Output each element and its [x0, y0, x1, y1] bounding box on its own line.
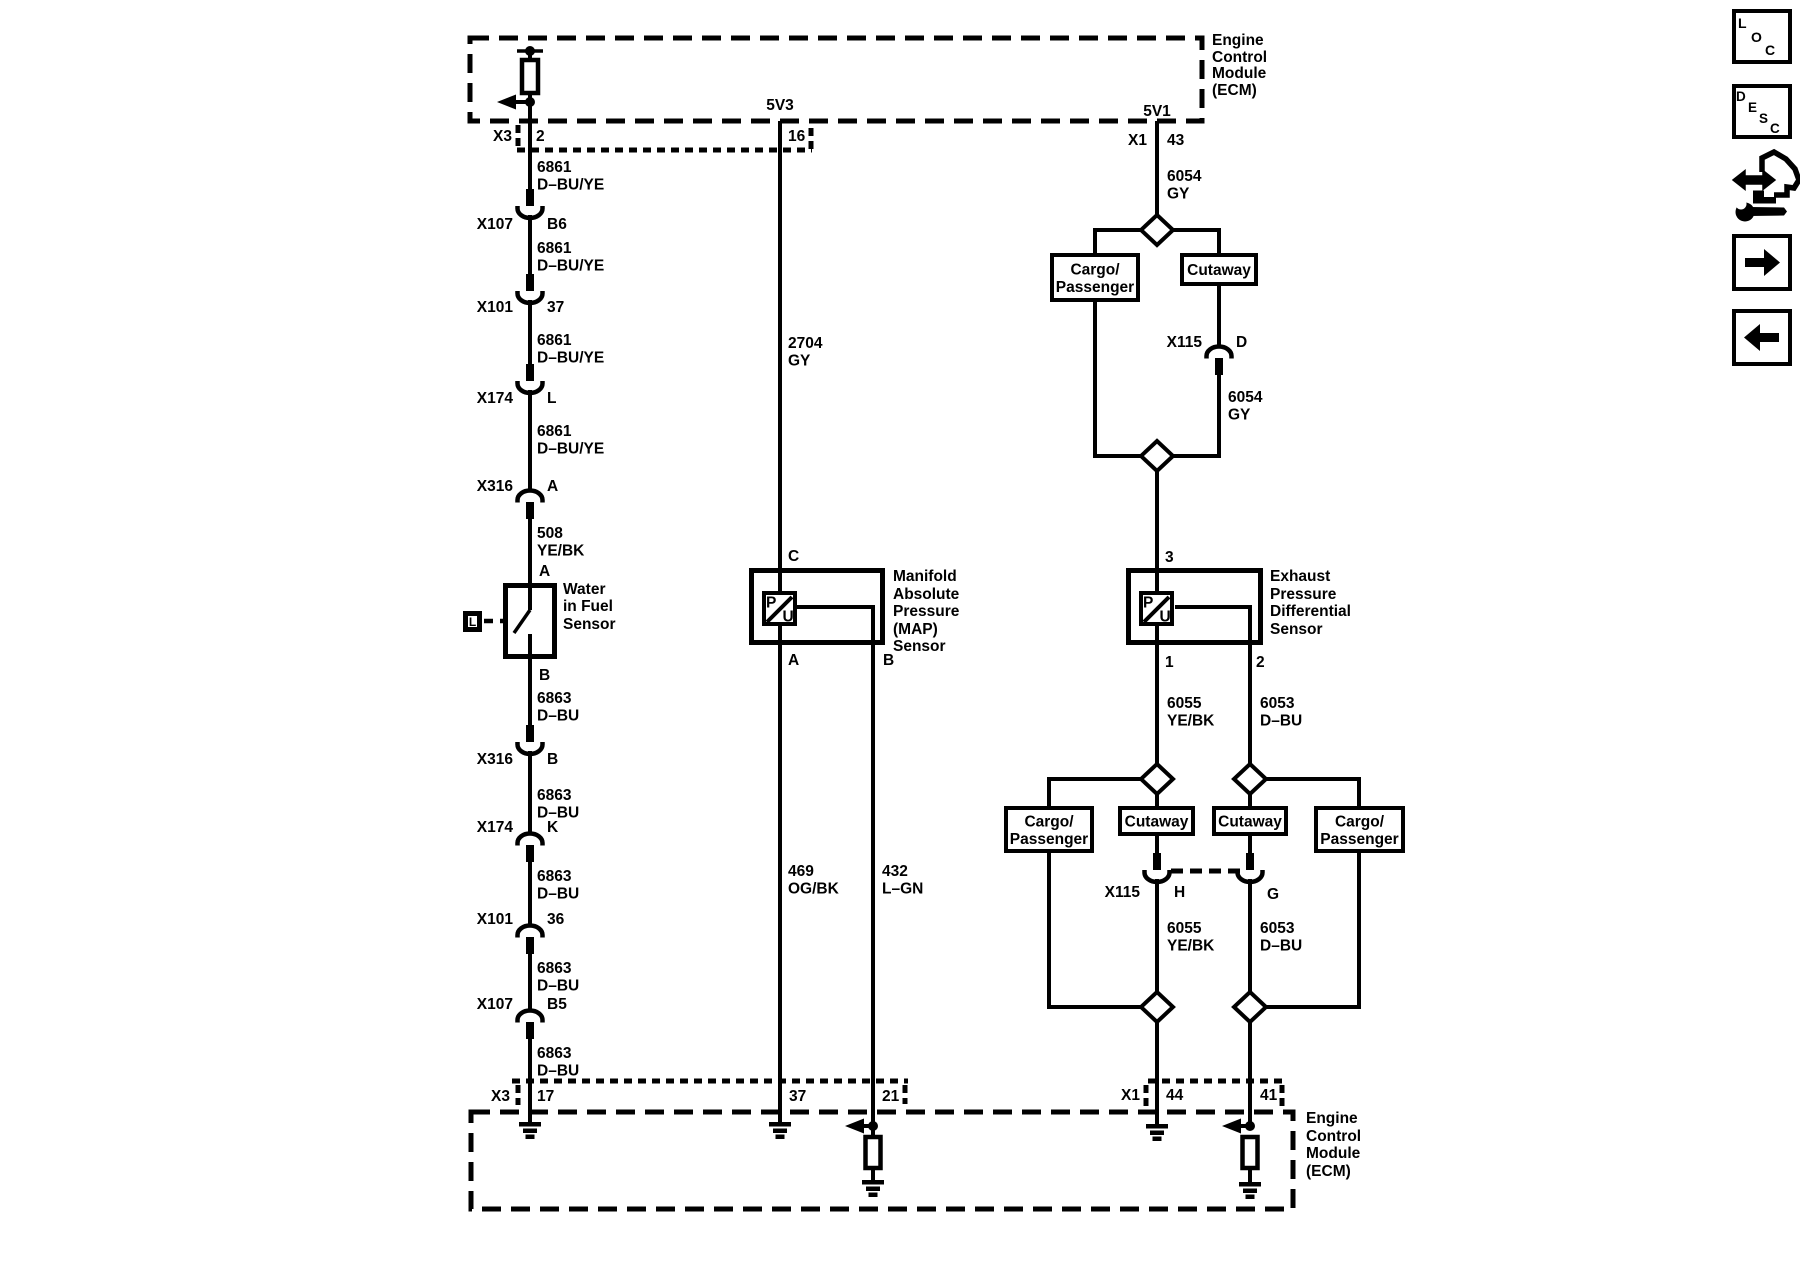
svg-text:Cutaway: Cutaway: [1125, 814, 1189, 831]
svg-text:X107: X107: [477, 216, 513, 233]
exhaust sensor box: [1129, 571, 1261, 643]
ground pin 44: [1146, 1124, 1168, 1141]
splice diamond 6055 bottom: [1141, 992, 1173, 1022]
svg-text:3: 3: [1165, 549, 1174, 566]
branch join left: [1093, 454, 1141, 458]
svg-text:D: D: [1736, 89, 1746, 104]
svg-text:6861: 6861: [537, 240, 572, 257]
svg-text:Cargo/: Cargo/: [1024, 813, 1074, 830]
svg-text:H: H: [1174, 884, 1185, 901]
resistor internal pin 21: [866, 1137, 881, 1168]
Cargo/Passenger box 2: [1006, 808, 1092, 851]
connector X316 pin B: [477, 725, 558, 768]
wire 6861 label 3: [537, 332, 604, 367]
svg-text:6861: 6861: [537, 332, 572, 349]
svg-text:K: K: [547, 819, 559, 836]
wire 6055 label 2: [1167, 920, 1215, 955]
Cargo/Passenger box 3: [1316, 808, 1403, 851]
wire 6863 label 4: [537, 960, 579, 995]
svg-text:Pressure: Pressure: [1270, 586, 1337, 603]
svg-text:2: 2: [536, 128, 545, 145]
branch 6053 right down: [1357, 777, 1361, 808]
svg-text:6863: 6863: [537, 1045, 572, 1062]
svg-text:P: P: [766, 595, 776, 612]
ground pin 37: [769, 1122, 791, 1139]
svg-text:D–BU: D–BU: [537, 1063, 579, 1080]
wire: [528, 390, 532, 491]
wire below Cutaway 1: [1217, 286, 1221, 347]
wire: [528, 300, 532, 381]
svg-text:Cutaway: Cutaway: [1187, 262, 1251, 279]
svg-text:37: 37: [789, 1088, 806, 1105]
svg-text:X101: X101: [477, 911, 514, 928]
wire resistor to ground: [871, 1168, 875, 1182]
connector strip X3 bottom dotted line: [512, 1079, 908, 1084]
connector X101 pin 37: [477, 274, 564, 316]
svg-text:432: 432: [882, 863, 908, 880]
wire to pin 44: [1155, 1022, 1159, 1126]
wire 6863 label 1: [537, 690, 579, 725]
svg-text:(ECM): (ECM): [1212, 82, 1257, 99]
svg-text:D–BU: D–BU: [537, 886, 579, 903]
svg-text:Engine: Engine: [1212, 32, 1264, 49]
MAP sensor label: [893, 568, 960, 655]
splice diamond 6055 top: [1141, 764, 1173, 794]
wire stub to resistor: [528, 51, 532, 60]
wire 432 label: [882, 863, 923, 898]
LOC icon: [1734, 11, 1790, 62]
connector strip X3 dotted line: [517, 148, 812, 153]
svg-text:5V3: 5V3: [766, 97, 794, 114]
branch 6055 left down: [1047, 777, 1051, 808]
svg-text:X1: X1: [1121, 1087, 1140, 1104]
svg-text:X316: X316: [477, 751, 514, 768]
wire: [528, 954, 532, 1011]
wire 508 label: [537, 525, 585, 560]
wire Cutaway L to X115 H: [1155, 836, 1159, 853]
X3 connector dashes bottom: [516, 1085, 521, 1105]
pin 21 cell dashes: [903, 1085, 908, 1104]
svg-text:D: D: [1236, 334, 1247, 351]
Cutaway box 1: [1182, 255, 1256, 284]
svg-text:C: C: [788, 548, 799, 565]
svg-text:Control: Control: [1212, 49, 1267, 66]
connector X115 pin H: [1105, 853, 1186, 901]
svg-text:A: A: [788, 652, 799, 669]
X3 connector dashes: [516, 125, 521, 147]
svg-text:Sensor: Sensor: [563, 616, 616, 633]
svg-text:YE/BK: YE/BK: [1167, 938, 1215, 955]
pressure transducer symbol exhaust: [1141, 593, 1172, 626]
wire 6053 label 2: [1260, 920, 1302, 955]
svg-text:D–BU: D–BU: [537, 708, 579, 725]
connector X174 pin K: [477, 819, 559, 862]
splice diamond top: [1141, 215, 1173, 245]
wire pin B down: [871, 605, 875, 1137]
svg-text:Differential: Differential: [1270, 603, 1351, 620]
ground pin 17: [519, 1122, 541, 1139]
svg-text:6863: 6863: [537, 690, 572, 707]
svg-text:6053: 6053: [1260, 920, 1295, 937]
wire diamond to Cutaway L: [1155, 794, 1159, 808]
wire pin C inside sensor: [778, 568, 782, 593]
MAP sensor box: [752, 571, 883, 643]
wire diamond to Cutaway R: [1248, 794, 1252, 808]
svg-text:O: O: [1751, 29, 1762, 45]
svg-text:D–BU: D–BU: [1260, 938, 1302, 955]
svg-text:5V1: 5V1: [1143, 103, 1171, 120]
svg-text:D–BU: D–BU: [1260, 713, 1302, 730]
service manual icon: [1733, 152, 1799, 222]
svg-text:YE/BK: YE/BK: [1167, 713, 1215, 730]
Cutaway box 2: [1120, 808, 1193, 834]
branch right down: [1217, 228, 1221, 255]
svg-text:C: C: [1765, 42, 1775, 58]
svg-text:U: U: [1160, 609, 1171, 626]
svg-text:16: 16: [788, 128, 806, 145]
Cargo/Passenger box 1: [1052, 255, 1138, 300]
forward arrow icon: [1734, 236, 1790, 289]
wire 6861 label 1: [537, 159, 604, 194]
svg-text:OG/BK: OG/BK: [788, 881, 840, 898]
svg-text:6055: 6055: [1167, 920, 1202, 937]
svg-text:6861: 6861: [537, 159, 572, 176]
wire below Cargo 1: [1093, 302, 1097, 458]
svg-text:L: L: [1738, 15, 1747, 31]
wire 2704 label: [788, 335, 823, 370]
svg-text:L: L: [469, 615, 476, 629]
branch P/U to pin 2: [1175, 605, 1250, 609]
ECM bottom label: [1306, 1110, 1361, 1180]
wire 2704 from pin 16: [778, 121, 782, 591]
svg-text:X316: X316: [477, 478, 514, 495]
svg-text:X3: X3: [493, 128, 512, 145]
svg-text:Passenger: Passenger: [1010, 831, 1088, 848]
svg-text:6863: 6863: [537, 960, 572, 977]
svg-text:1: 1: [1165, 654, 1174, 671]
svg-text:U: U: [783, 609, 794, 626]
ECM top label: [1212, 32, 1267, 99]
pressure transducer symbol MAP: [764, 593, 795, 626]
svg-text:17: 17: [537, 1088, 554, 1105]
arrow to internal circuit: [497, 95, 535, 110]
wire 6054 from pin 43: [1155, 121, 1159, 216]
svg-text:Exhaust: Exhaust: [1270, 568, 1330, 585]
switch lower contact: [528, 634, 532, 725]
svg-text:S: S: [1759, 111, 1768, 126]
svg-text:D–BU/YE: D–BU/YE: [537, 441, 604, 458]
svg-text:X3: X3: [491, 1088, 510, 1105]
splice diamond 6053 bottom: [1234, 992, 1266, 1022]
level sensor L box: [466, 614, 480, 630]
branch join right: [1173, 454, 1221, 458]
splice diamond join: [1141, 441, 1173, 471]
svg-text:B: B: [539, 667, 550, 684]
svg-text:6863: 6863: [537, 787, 572, 804]
ECM top dashed box: [470, 38, 1202, 121]
wire pin A inside sensor: [528, 583, 532, 610]
water in fuel sensor box: [506, 586, 555, 657]
svg-text:Engine: Engine: [1306, 1110, 1358, 1127]
svg-text:YE/BK: YE/BK: [537, 543, 585, 560]
svg-text:6861: 6861: [537, 423, 572, 440]
connector X107 pin B5: [477, 996, 567, 1039]
connector X107 pin B6: [477, 189, 567, 233]
wire 6863 label 3: [537, 868, 579, 903]
svg-text:Sensor: Sensor: [1270, 621, 1323, 638]
arrow pin 41 internal: [1222, 1119, 1255, 1134]
branch join to diamond R: [1266, 1005, 1361, 1009]
arrow pin 21 internal: [845, 1119, 878, 1134]
svg-text:(MAP): (MAP): [893, 621, 938, 638]
pin 16 cell dashes: [809, 128, 814, 151]
svg-text:Manifold: Manifold: [893, 568, 957, 585]
wire 6861 label 4: [537, 423, 604, 458]
X1 connector dashes bottom: [1144, 1085, 1149, 1106]
branch join to diamond L: [1047, 1005, 1141, 1009]
wire 6054 label 1: [1167, 168, 1202, 203]
resistor internal pin 41: [1243, 1137, 1258, 1168]
svg-text:Module: Module: [1212, 65, 1267, 82]
connector X115 pin G: [1238, 853, 1280, 903]
wire 6054 label 2: [1228, 389, 1263, 424]
svg-text:469: 469: [788, 863, 814, 880]
pin 41 cell dashes: [1280, 1085, 1285, 1106]
svg-text:43: 43: [1167, 132, 1185, 149]
svg-text:X174: X174: [477, 390, 514, 407]
svg-text:X1: X1: [1128, 132, 1147, 149]
svg-text:D–BU/YE: D–BU/YE: [537, 177, 604, 194]
wire 6053 label 1: [1260, 695, 1302, 730]
svg-text:GY: GY: [1167, 186, 1190, 203]
branch 6053 right: [1266, 777, 1361, 781]
svg-text:36: 36: [547, 911, 565, 928]
branch P/U to pin B: [797, 605, 873, 609]
wire: [528, 215, 532, 291]
resistor internal ECM top: [522, 60, 538, 93]
wire: [528, 751, 532, 834]
svg-text:Cutaway: Cutaway: [1218, 814, 1282, 831]
Cutaway box 3: [1214, 808, 1286, 834]
svg-text:GY: GY: [788, 353, 811, 370]
svg-text:Cargo/: Cargo/: [1335, 813, 1385, 830]
wire 6055 below H: [1155, 879, 1159, 992]
wire 6863 label 5: [537, 1045, 579, 1080]
wire resistor to pin 2: [528, 93, 532, 206]
connector X174 pin L: [477, 364, 557, 407]
svg-text:6055: 6055: [1167, 695, 1202, 712]
svg-text:Passenger: Passenger: [1320, 831, 1398, 848]
wire pin 3 inside sensor: [1155, 568, 1159, 593]
wire pin 1 down: [1155, 624, 1159, 765]
wire pin 2 down: [1248, 605, 1252, 765]
svg-text:L–GN: L–GN: [882, 881, 923, 898]
svg-text:P: P: [1143, 595, 1153, 612]
svg-text:6863: 6863: [537, 868, 572, 885]
svg-text:X115: X115: [1167, 334, 1203, 351]
svg-text:L: L: [547, 390, 556, 407]
svg-text:D–BU/YE: D–BU/YE: [537, 258, 604, 275]
wire 6054 below X115 D: [1217, 375, 1221, 458]
svg-text:GY: GY: [1228, 407, 1251, 424]
svg-text:508: 508: [537, 525, 563, 542]
svg-text:B: B: [547, 751, 558, 768]
DESC icon: [1734, 86, 1790, 137]
wire to pin 3: [1155, 471, 1159, 591]
svg-text:37: 37: [547, 299, 564, 316]
svg-text:Sensor: Sensor: [893, 638, 946, 655]
branch left down: [1093, 228, 1097, 255]
svg-text:Module: Module: [1306, 1145, 1361, 1162]
wire to pin 41: [1248, 1022, 1252, 1127]
wire Cargo L down: [1047, 853, 1051, 1009]
exhaust sensor label: [1270, 568, 1351, 638]
svg-text:44: 44: [1166, 1087, 1184, 1104]
wire: [528, 862, 532, 926]
svg-text:Cargo/: Cargo/: [1070, 261, 1120, 278]
svg-text:6054: 6054: [1167, 168, 1202, 185]
wire resistor to ground 41: [1248, 1168, 1252, 1184]
svg-text:C: C: [1770, 121, 1780, 136]
svg-text:Passenger: Passenger: [1056, 279, 1134, 296]
branch right: [1173, 228, 1221, 232]
wire inside MAP to pin A: [778, 624, 782, 1124]
connector X115 pin D: [1167, 334, 1248, 375]
wire Cargo R down: [1357, 853, 1361, 1009]
splice diamond 6053 top: [1234, 764, 1266, 794]
svg-text:X107: X107: [477, 996, 513, 1013]
ground below resistor pin 21: [862, 1180, 884, 1197]
svg-text:41: 41: [1260, 1087, 1278, 1104]
svg-text:X101: X101: [477, 299, 514, 316]
svg-text:E: E: [1748, 100, 1757, 115]
wire 469 label: [788, 863, 840, 898]
svg-text:D–BU: D–BU: [537, 978, 579, 995]
svg-text:D–BU/YE: D–BU/YE: [537, 350, 604, 367]
branch 6055 left: [1047, 777, 1141, 781]
wire 508: [528, 519, 532, 610]
svg-text:2: 2: [1256, 654, 1265, 671]
connector X316 pin A: [477, 478, 558, 519]
svg-text:Pressure: Pressure: [893, 603, 960, 620]
svg-text:Control: Control: [1306, 1128, 1361, 1145]
switch blade: [514, 610, 530, 633]
svg-text:Water: Water: [563, 581, 606, 598]
connector X101 pin 36: [477, 911, 565, 954]
svg-text:2704: 2704: [788, 335, 823, 352]
ground below resistor pin 41: [1239, 1182, 1261, 1199]
wire 6861 label 2: [537, 240, 604, 275]
branch left: [1093, 228, 1141, 232]
wire 6053 below G: [1248, 879, 1252, 992]
svg-text:Absolute: Absolute: [893, 586, 960, 603]
ECM bottom dashed box: [471, 1112, 1293, 1209]
connector strip X1 dotted line: [1148, 1079, 1284, 1084]
wire 6863 label 2: [537, 787, 579, 822]
svg-text:21: 21: [882, 1088, 900, 1105]
svg-text:B5: B5: [547, 996, 567, 1013]
water in fuel sensor label: [563, 581, 616, 633]
wire 6055 label 1: [1167, 695, 1215, 730]
svg-text:6053: 6053: [1260, 695, 1295, 712]
dashed link X115 H-G: [1171, 869, 1240, 874]
svg-text:B: B: [883, 652, 894, 669]
svg-text:A: A: [547, 478, 558, 495]
svg-text:G: G: [1267, 886, 1279, 903]
dashed link L box: [484, 619, 503, 624]
svg-text:X115: X115: [1105, 884, 1141, 901]
wire: [528, 1039, 532, 1124]
svg-text:B6: B6: [547, 216, 567, 233]
svg-text:A: A: [539, 563, 550, 580]
svg-text:in Fuel: in Fuel: [563, 598, 613, 615]
svg-text:X174: X174: [477, 819, 514, 836]
svg-text:6054: 6054: [1228, 389, 1263, 406]
back arrow icon: [1734, 311, 1790, 364]
node stub in ECM: [517, 46, 543, 56]
wire Cutaway R to X115 G: [1248, 836, 1252, 853]
svg-text:(ECM): (ECM): [1306, 1163, 1351, 1180]
